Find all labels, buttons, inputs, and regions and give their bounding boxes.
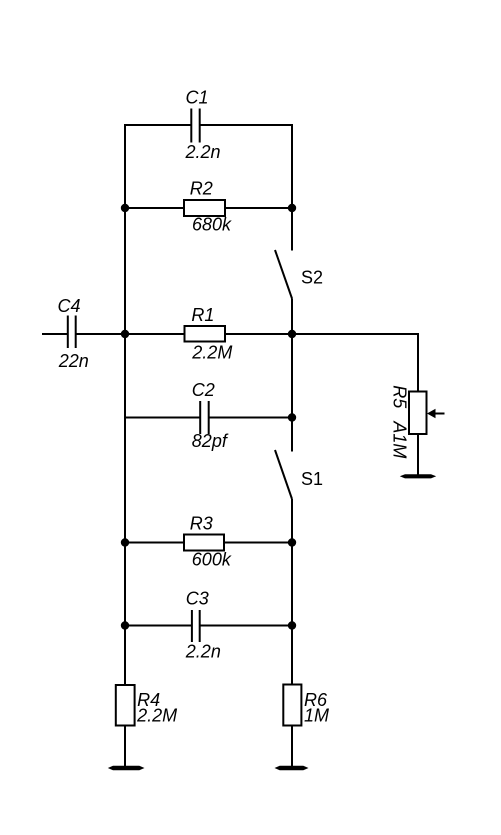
- wire right bus upper: [291, 124, 293, 251]
- svg-text:A1M: A1M: [389, 420, 409, 458]
- wire R4 bottom lead: [124, 726, 126, 769]
- ground R6: [275, 766, 309, 770]
- svg-text:1M: 1M: [304, 706, 329, 726]
- svg-text:C2: C2: [192, 380, 215, 400]
- svg-text:600k: 600k: [192, 550, 232, 570]
- wire R5 bottom lead: [417, 434, 419, 476]
- wire R5 feed horizontal: [292, 333, 418, 335]
- switch S1 blade: [275, 450, 292, 499]
- svg-text:S1: S1: [301, 469, 323, 489]
- wire C2 rung left: [125, 417, 200, 419]
- ground R4: [108, 766, 145, 770]
- svg-text:C1: C1: [186, 88, 209, 108]
- resistor R2 body: [184, 200, 225, 216]
- resistor R3 body: [184, 535, 224, 551]
- node R1 right: [288, 330, 296, 338]
- node R3 left: [121, 538, 129, 546]
- svg-text:22n: 22n: [58, 351, 89, 371]
- wire right bus lower: [291, 499, 293, 686]
- svg-text:2.2M: 2.2M: [191, 343, 232, 363]
- resistor R1 body: [185, 326, 226, 342]
- node R2 right: [288, 204, 296, 212]
- capacitor C4 plates: [67, 316, 69, 349]
- wire input lead left: [42, 333, 67, 335]
- resistor R6 body: [283, 685, 301, 726]
- wire top rung left (C1 left lead): [124, 124, 191, 126]
- wire top rung right (C1 right lead): [200, 124, 293, 126]
- resistor R4 body: [116, 685, 135, 726]
- node R2 left: [121, 204, 129, 212]
- wire right bus middle: [291, 299, 293, 452]
- svg-text:680k: 680k: [192, 215, 232, 235]
- svg-text:R2: R2: [190, 179, 213, 199]
- wire R1 rung: [125, 333, 292, 335]
- node R3 right: [288, 538, 296, 546]
- svg-text:R3: R3: [190, 514, 213, 534]
- node C2 right: [288, 413, 296, 421]
- wire C2 rung right: [209, 417, 292, 419]
- ground R5: [400, 474, 436, 478]
- capacitor C1 plates: [190, 109, 192, 143]
- node C3 left: [121, 621, 129, 629]
- svg-text:82pf: 82pf: [192, 431, 229, 451]
- capacitor C2 plates: [199, 401, 201, 434]
- svg-text:2.2M: 2.2M: [136, 706, 177, 726]
- node R1 left: [121, 330, 129, 338]
- wire R6 bottom lead: [291, 726, 293, 769]
- node C3 right: [288, 621, 296, 629]
- svg-text:S2: S2: [301, 268, 323, 288]
- wire R2 rung: [125, 207, 292, 209]
- wire C3 rung left: [125, 625, 192, 627]
- wire R3 rung: [125, 542, 292, 544]
- wire input lead right (C4 to bus): [76, 333, 125, 335]
- svg-text:R1: R1: [191, 305, 214, 325]
- wire R5 feed vertical: [417, 333, 419, 392]
- wire left bus: [124, 124, 126, 686]
- wire C3 rung right: [200, 625, 292, 627]
- switch S2 blade: [275, 250, 292, 299]
- potentiometer R5 wiper arrow: [427, 409, 445, 418]
- svg-text:C4: C4: [58, 296, 81, 316]
- svg-text:C3: C3: [186, 589, 209, 609]
- capacitor C3 plates: [191, 610, 193, 642]
- potentiometer R5 body: [409, 392, 427, 435]
- svg-text:R5: R5: [389, 385, 409, 409]
- svg-text:2.2n: 2.2n: [185, 642, 221, 662]
- svg-text:2.2n: 2.2n: [185, 142, 221, 162]
